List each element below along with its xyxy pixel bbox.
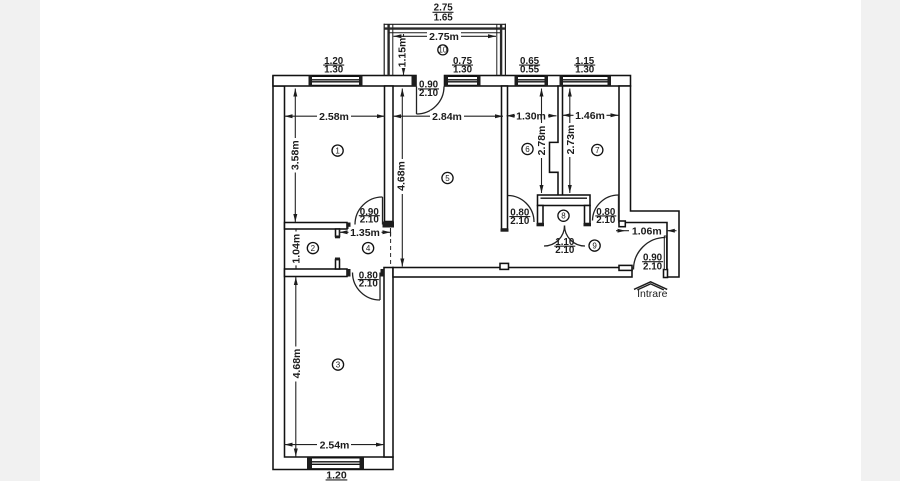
svg-text:1.30: 1.30 — [453, 65, 473, 76]
label 0.65/0.55 window W3 — [519, 56, 540, 76]
svg-text:1.35m: 1.35m — [350, 227, 380, 239]
dimension 1.30m room6 — [507, 110, 557, 122]
label 0.80/2.10 room7 door — [595, 207, 616, 226]
svg-text:2: 2 — [311, 244, 316, 253]
svg-text:2.10: 2.10 — [643, 262, 663, 273]
wall: room8 top inner line — [541, 197, 588, 199]
svg-text:1.30: 1.30 — [324, 65, 344, 76]
wall: main bottom of hall/room5 — [393, 268, 632, 278]
label 0.90/2.10 room1 door — [359, 207, 380, 225]
cap: rooms2/4 bottom wall at door — [347, 269, 351, 277]
door D2 room3 arc — [353, 273, 381, 301]
svg-text:1.65: 1.65 — [434, 13, 454, 24]
wall: between room5 and room6 — [502, 86, 508, 229]
wall: room3 right — [384, 268, 393, 458]
cap: room8 right wall end — [584, 223, 592, 226]
svg-text:10: 10 — [438, 46, 447, 55]
label 2.75/1.65 above balcony — [433, 2, 454, 23]
cap: stub lower end — [335, 258, 340, 261]
svg-text:2.10: 2.10 — [510, 216, 530, 227]
wall: notch stub above bottom wall at room5/6 line — [500, 263, 509, 269]
wall: between room6 and room7 with jog — [550, 86, 563, 196]
wall: stub between room2 and room4 upper — [336, 229, 340, 237]
door D4 room6 (0.80) arc — [508, 196, 535, 223]
room circle 4 — [363, 243, 374, 254]
svg-text:8: 8 — [561, 212, 566, 221]
wall: room8 top — [538, 195, 591, 206]
door D1 room1 arc — [355, 197, 383, 225]
svg-text:4: 4 — [366, 244, 371, 253]
cap: top wall right of room1 window — [359, 76, 363, 87]
svg-text:2.10: 2.10 — [359, 279, 379, 290]
dimension 4.68m room5 vertical — [396, 89, 408, 267]
room circle 9 — [589, 240, 600, 251]
door D2 room3 (0.80) leaf — [379, 273, 381, 301]
cap: room3 window right — [360, 457, 365, 469]
room circle 10 — [438, 45, 448, 55]
cap: end of wall room1/room5 — [383, 222, 395, 228]
balcony right glazed wall — [497, 24, 506, 76]
svg-text:7: 7 — [595, 146, 600, 155]
svg-text:9: 9 — [592, 242, 597, 251]
door D1 room1 (0.90) leaf — [382, 197, 384, 225]
svg-text:4.68m: 4.68m — [291, 349, 303, 379]
dimension 1.04m room2 vertical — [291, 230, 303, 269]
room circle 5 — [442, 172, 453, 183]
wall: room8 right — [585, 206, 591, 224]
label 1.10/2.10 room8 doors — [554, 237, 575, 256]
svg-text:1.30: 1.30 — [575, 65, 595, 76]
dimension 2.54m room3 — [285, 439, 385, 451]
svg-text:2.10: 2.10 — [555, 245, 575, 256]
label 0.90/2.10 balcony door — [418, 80, 439, 99]
svg-text:1.20: 1.20 — [326, 470, 347, 481]
svg-text:1.06m: 1.06m — [632, 226, 662, 238]
svg-text:0.55: 0.55 — [520, 65, 540, 76]
door D5 room7 (0.80) leaf — [618, 195, 620, 221]
room circle 7 — [592, 144, 603, 155]
svg-text:Intrare: Intrare — [637, 288, 668, 300]
door D7 entrance (0.90) leaf — [664, 236, 666, 270]
label 1.20/1.30 window W1 — [323, 56, 344, 76]
wall: top exterior segment left — [273, 76, 416, 87]
svg-text:2.58m: 2.58m — [319, 111, 349, 123]
cap: room3 window left — [307, 457, 312, 469]
svg-text:1.46m: 1.46m — [575, 110, 605, 122]
door D7 entrance arc — [634, 238, 666, 270]
right gray margin bar — [861, 0, 900, 481]
label 0.80/2.10 room3 door — [358, 270, 379, 289]
window W1 1.20 room1 — [312, 76, 359, 85]
cap: top wall right of room6 window — [545, 76, 549, 87]
wall: bottom corner right of entrance door — [664, 270, 668, 278]
svg-text:2.54m: 2.54m — [320, 439, 350, 451]
wall: stub between room2 and room4 lower — [336, 260, 340, 270]
balcony top glazed wall — [384, 24, 506, 33]
cap: room3 door right jamb — [381, 269, 385, 277]
dimension 1.15m balcony vertical — [396, 34, 408, 75]
svg-text:6: 6 — [525, 145, 530, 154]
svg-text:4.68m: 4.68m — [396, 161, 408, 191]
dimension 4.68m room3 vertical — [291, 277, 303, 457]
cap: end of wall room5/room6 — [501, 229, 509, 232]
cap: top wall left of room5 window — [445, 76, 449, 87]
svg-text:2.84m: 2.84m — [432, 111, 462, 123]
cap: room1 bottom wall at door — [347, 223, 351, 230]
door D6 room8 double right arc — [565, 226, 586, 247]
dimension 3.58m room1 vertical — [290, 89, 302, 223]
label 0.80/2.10 room6 door — [509, 208, 530, 227]
cap: top wall left of room1 window — [309, 76, 313, 87]
dimension 2.75m balcony — [393, 31, 496, 43]
left gray margin bar — [0, 0, 40, 481]
wall: left exterior + room3 bottom exterior — [273, 76, 393, 470]
cap: top wall right of room7 window — [608, 76, 612, 87]
room circle 1 — [332, 145, 343, 156]
svg-text:2.10: 2.10 — [360, 215, 380, 226]
wall: bump on bottom wall left of entrance — [619, 265, 632, 270]
wall: between room1 and room5 — [385, 86, 394, 222]
label 0.90/2.10 entrance door — [642, 253, 663, 273]
dimension 1.06m hall9 — [616, 225, 677, 237]
label 1.15/1.30 window W4 — [574, 56, 595, 76]
svg-text:2.78m: 2.78m — [536, 126, 548, 156]
dimension 2.73m room7 vertical — [565, 89, 577, 194]
cap: top wall left of room7 window — [560, 76, 564, 87]
svg-text:1.15m: 1.15m — [396, 38, 408, 68]
window W4 1.15 room7 — [563, 76, 608, 85]
cap: top wall left of room6 window — [515, 76, 519, 87]
window W3 0.65 room6 — [518, 76, 545, 85]
svg-text:2.10: 2.10 — [419, 88, 439, 99]
wall: top exterior segment right — [445, 76, 631, 87]
svg-text:5: 5 — [445, 174, 450, 183]
balcony left glazed wall — [384, 24, 393, 76]
room circle 8 — [558, 210, 569, 221]
room circle 6 — [522, 143, 533, 154]
entrance chevron symbol — [634, 282, 667, 290]
dimension 2.78m room6 vertical — [536, 89, 548, 194]
wall: right exterior + step + entry corridor right — [619, 86, 679, 277]
cap: top wall right of room5 window — [477, 76, 481, 87]
svg-text:1.04m: 1.04m — [291, 234, 303, 264]
door D3 balcony (0.90) leaf — [416, 87, 418, 115]
svg-text:3: 3 — [336, 361, 341, 370]
door D5 room7 arc — [593, 195, 619, 221]
dashed opening room4 to room5 — [390, 232, 392, 267]
door D3 balcony arc — [417, 87, 445, 115]
label 1.20 room3 window — [326, 470, 348, 481]
dimension 1.35m room4 — [340, 227, 391, 239]
door D6 room8 double left arc — [544, 226, 565, 247]
cap: stub upper end — [335, 236, 340, 239]
wall: bottom of room1 / top of rooms 2,4 — [285, 223, 348, 230]
dimension 2.84m room5 — [393, 111, 503, 123]
svg-text:2.73m: 2.73m — [565, 125, 577, 155]
cap: top wall at balcony door left — [412, 76, 417, 87]
window W5 1.20 room3 bottom — [312, 458, 360, 469]
room circle 2 — [307, 243, 318, 254]
svg-text:2.10: 2.10 — [596, 215, 616, 226]
window W2 0.75 room5 — [448, 76, 477, 85]
cap: step wall end in hall9 — [619, 221, 625, 227]
cap: room8 left wall end — [537, 223, 545, 226]
svg-text:3.58m: 3.58m — [290, 140, 302, 170]
wall: bottom of rooms 2/4 — [285, 269, 348, 277]
dimension 2.58m room1 — [285, 111, 386, 123]
dimension 1.46m room7 — [563, 110, 619, 122]
label 0.75/1.30 window W2 — [452, 56, 473, 76]
svg-text:2.75m: 2.75m — [429, 31, 459, 43]
room circle 3 — [332, 359, 343, 370]
svg-text:1: 1 — [335, 147, 340, 156]
wall: room8 left — [538, 206, 544, 224]
